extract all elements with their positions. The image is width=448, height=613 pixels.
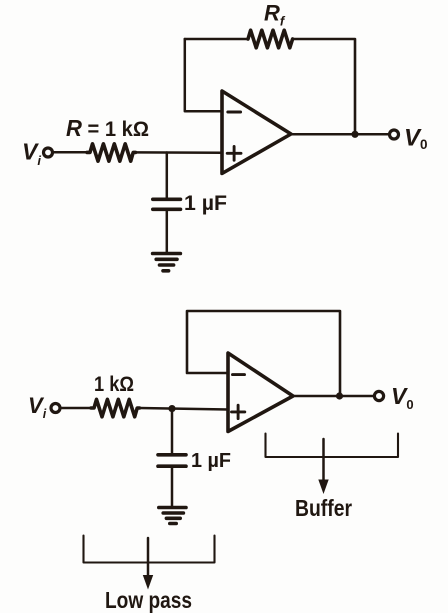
U1 minus input marker [228, 111, 241, 114]
label 1 uF (bottom) [191, 450, 231, 472]
resistor R1 (R = 1 kOhm) [87, 144, 136, 161]
svg-text:Low pass: Low pass [105, 587, 192, 613]
node Vi label (top circuit) [22, 139, 41, 169]
wire capacitor to ground (top) [166, 211, 169, 252]
resistor Rf [248, 30, 293, 48]
output terminal (bottom circuit) [374, 391, 383, 400]
node V0 label (top circuit) [404, 125, 428, 153]
op-amp U2 (bottom circuit) [228, 353, 293, 432]
wire capacitor to ground (bottom) [171, 468, 174, 506]
node Vi label (bottom circuit) [28, 393, 47, 421]
wire feedback loop (bottom, minus input to output) [187, 311, 340, 396]
label R = 1 kOhm [66, 115, 149, 141]
junction output node (bottom) [336, 392, 343, 399]
wire capacitor branch (bottom) [171, 409, 174, 453]
input terminal (bottom circuit) [51, 404, 60, 413]
label 1 kOhm (bottom) [94, 373, 134, 396]
svg-text:1 µF: 1 µF [191, 450, 231, 472]
label 1 uF (top) [184, 192, 227, 215]
U1 plus input marker [227, 146, 241, 160]
label Buffer [295, 495, 352, 521]
input terminal (top circuit) [44, 148, 53, 157]
output terminal (top circuit) [390, 130, 399, 139]
svg-text:Rf: Rf [264, 1, 286, 29]
svg-text:V0: V0 [404, 125, 428, 153]
node V0 label (bottom circuit) [391, 383, 414, 412]
junction node (bottom input) [168, 405, 175, 412]
wire input to resistor R [53, 151, 87, 154]
arrow Low pass [143, 538, 153, 590]
wire feedback top-right segment [293, 39, 355, 134]
brace Buffer section [266, 434, 399, 458]
wire resistor to op-amp + input [136, 151, 223, 154]
label Low pass [105, 587, 192, 613]
svg-text:V0: V0 [391, 383, 414, 412]
resistor R2 (1 kOhm, bottom) [91, 399, 140, 416]
capacitor C2 plates (1 uF, bottom circuit) [158, 453, 186, 457]
wire capacitor branch (top) [166, 153, 169, 198]
svg-text:Vi: Vi [22, 139, 41, 169]
U2 plus input marker [232, 405, 245, 418]
arrow Buffer [318, 439, 328, 494]
wire feedback top-left segment [185, 38, 248, 41]
svg-text:1 kΩ: 1 kΩ [94, 373, 134, 396]
label Rf [264, 1, 286, 29]
wire op-amp output (bottom) [293, 395, 375, 398]
wire input to resistor (bottom) [60, 407, 91, 410]
svg-text:Vi: Vi [28, 393, 47, 421]
brace Low pass section [84, 536, 215, 563]
svg-text:1 µF: 1 µF [184, 192, 227, 215]
svg-text:Buffer: Buffer [295, 495, 352, 521]
ground (top circuit) [153, 254, 181, 271]
capacitor C1 plates (1 uF, top circuit) [153, 198, 181, 202]
op-amp U1 (top circuit) [222, 91, 291, 174]
wire feedback left (minus input to loop, top) [185, 39, 222, 111]
U2 minus input marker [233, 373, 245, 376]
svg-text:R = 1 kΩ: R = 1 kΩ [66, 115, 149, 141]
junction output node (top) [351, 131, 358, 138]
wire op-amp output (top) [291, 133, 390, 136]
ground (bottom circuit) [159, 508, 186, 524]
wire resistor to op-amp + input (bottom) [140, 408, 229, 410]
